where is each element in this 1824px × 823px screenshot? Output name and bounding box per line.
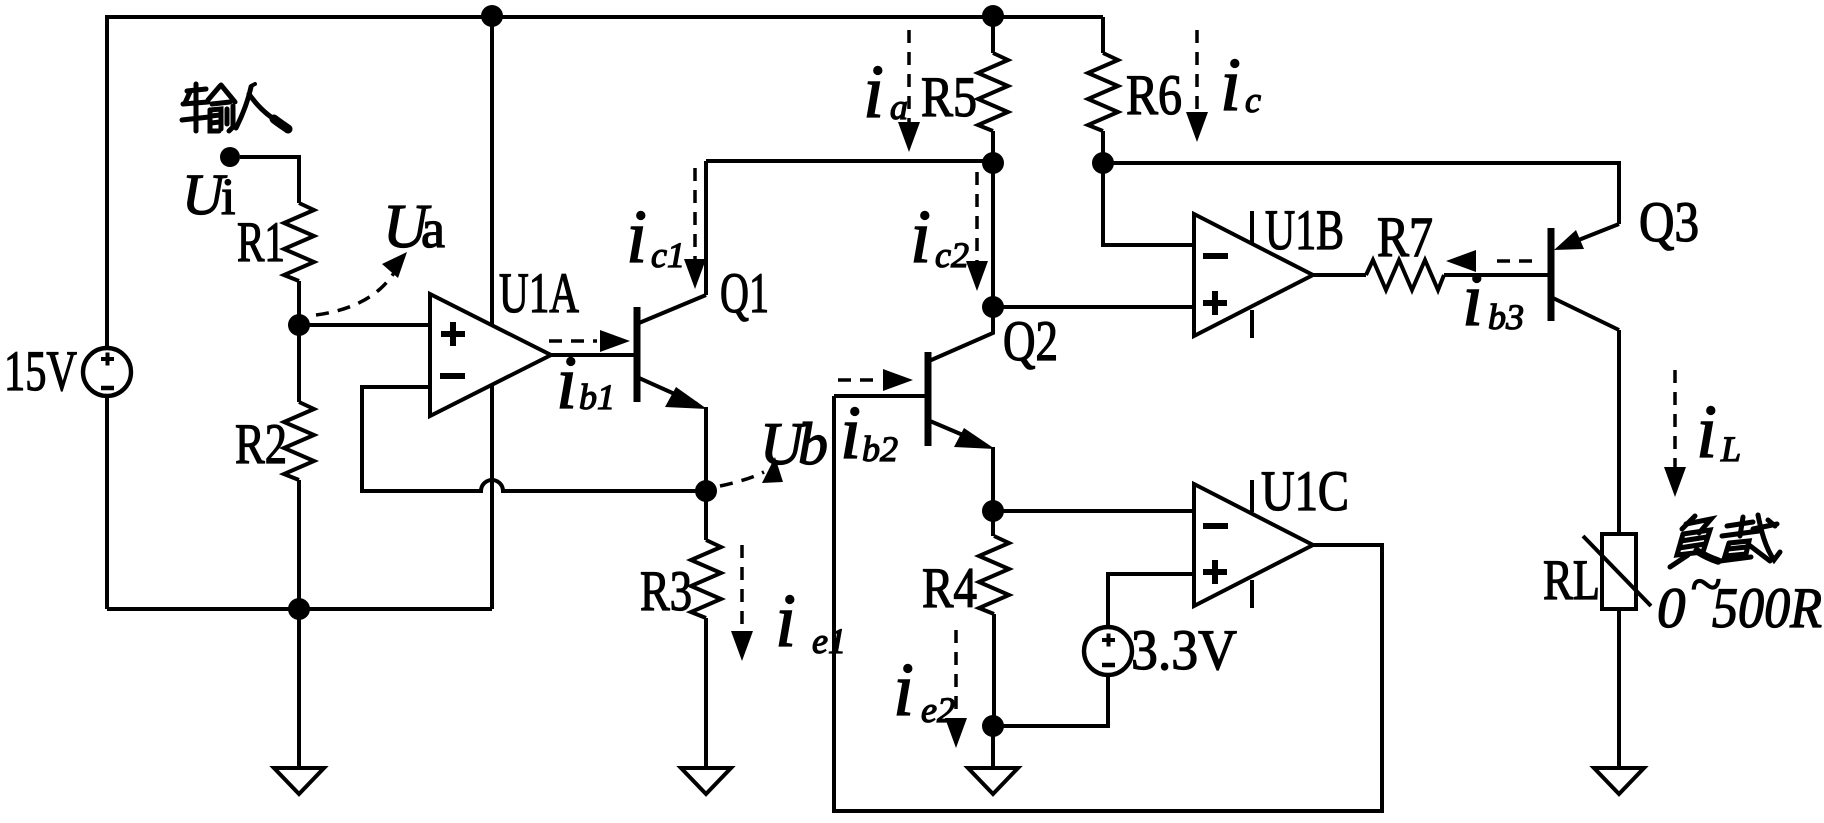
node R6 bottom junction (1092, 152, 1114, 174)
label R3 (640, 560, 692, 623)
wire input to R1 (240, 157, 299, 203)
node Q2 emitter / R4 junction (982, 500, 1004, 522)
node input terminal Ui (220, 147, 240, 167)
resistor R6 (1088, 17, 1118, 163)
ground under RL (1594, 609, 1644, 794)
label R6 (1126, 64, 1182, 127)
label U1C (1261, 460, 1349, 523)
node R5 bottom junction (982, 152, 1004, 174)
current arrow i_a (898, 30, 920, 152)
wire R7 to Q3 base (1444, 273, 1550, 277)
current arrow i_L (1664, 370, 1686, 497)
wire Q2 base from U1C feedback (834, 394, 928, 398)
label 输入 (input) (182, 84, 288, 131)
current arrow i_c (1186, 30, 1208, 142)
label i_e2 (893, 648, 955, 732)
wire U1C output feedback loop to Q2 base (834, 396, 1382, 811)
label Ua with curved arrow (316, 193, 445, 315)
label U1B (1265, 199, 1344, 262)
wire top rail (107, 15, 1103, 19)
label i_L (1696, 390, 1741, 474)
svg-text:i: i (1696, 390, 1717, 474)
node top R5 junction (982, 5, 1004, 27)
wire 3.3V to U1C + input (1108, 574, 1194, 627)
op-amp U1B (1194, 211, 1313, 338)
svg-text:a: a (421, 199, 445, 259)
current arrow i_b3 (1446, 250, 1532, 272)
svg-text:R1: R1 (237, 211, 285, 274)
op-amp U1C (1194, 480, 1313, 608)
load resistor RL (adjustable) (1583, 534, 1651, 609)
label i_b1 (556, 341, 615, 425)
svg-text:i: i (221, 169, 235, 226)
svg-text:i: i (840, 391, 861, 475)
label Q2 (1003, 310, 1058, 373)
wire bottom-left rail (107, 607, 492, 611)
ground under R3 (681, 618, 731, 794)
label i_c2 (910, 195, 969, 279)
ground under R4 (968, 726, 1018, 794)
node Q2 collector junction (982, 296, 1004, 318)
svg-text:500R: 500R (1712, 577, 1822, 640)
label 3.3V (1131, 619, 1237, 682)
svg-text:b2: b2 (862, 429, 898, 469)
label Q1 (720, 262, 769, 325)
transistor Q1 (637, 295, 707, 409)
transistor Q2 (928, 307, 995, 511)
svg-text:R7: R7 (1377, 206, 1433, 269)
label 15V (4, 340, 77, 403)
wire Q2 collector chain (991, 163, 995, 307)
svg-text:Q3: Q3 (1639, 191, 1699, 254)
label i_c (1220, 43, 1261, 127)
svg-text:U1A: U1A (499, 262, 579, 325)
current arrow i_c2 (966, 172, 988, 291)
wire R1 to node A (297, 281, 301, 325)
svg-text:e1: e1 (812, 621, 846, 661)
svg-text:0: 0 (1657, 577, 1686, 640)
wire collector rail to R5 node (706, 159, 993, 163)
wire R6 node to Q3 emitter (1103, 163, 1619, 224)
wire U1A feedback (minus input to node Ub, hops over vertical) (362, 387, 706, 491)
svg-text:i: i (910, 195, 931, 279)
current arrow i_c1 (684, 168, 706, 289)
wire Q3 collector to RL (1617, 330, 1621, 534)
wire R2 top (297, 325, 301, 402)
label RL (1543, 549, 1600, 612)
svg-text:Q1: Q1 (720, 262, 769, 325)
node top-left junction (481, 5, 503, 27)
ground under R2 (274, 609, 324, 794)
svg-text:b1: b1 (579, 377, 615, 417)
label R7 (1377, 206, 1433, 269)
wire U1C - input from R4 top (993, 509, 1194, 513)
voltage source 3.3V (1084, 627, 1132, 675)
svg-text:c1: c1 (651, 235, 685, 275)
wire Q1 collector up (704, 161, 708, 295)
voltage source 15V (83, 348, 131, 396)
wire center vertical (top rail to bottom rail) (490, 16, 494, 609)
svg-text:b3: b3 (1488, 297, 1524, 337)
svg-text:c2: c2 (935, 235, 969, 275)
label i_b2 (840, 391, 898, 475)
node R2 bottom junction (288, 598, 310, 620)
svg-text:U1C: U1C (1261, 460, 1349, 523)
label i_b3 (1462, 258, 1524, 342)
svg-text:i: i (893, 648, 914, 732)
label i_e1 (775, 579, 846, 663)
label R5 (921, 66, 977, 129)
wire R2 bottom (297, 480, 301, 609)
svg-text:R4: R4 (922, 557, 977, 620)
svg-text:R6: R6 (1126, 64, 1182, 127)
label U1A (499, 262, 579, 325)
svg-text:e2: e2 (921, 690, 955, 730)
wire left rail lower (105, 396, 109, 609)
svg-text:i: i (775, 579, 796, 663)
svg-text:i: i (1462, 258, 1483, 342)
svg-text:R5: R5 (921, 66, 977, 129)
label 0~500R (1657, 553, 1822, 640)
svg-text:15V: 15V (4, 340, 77, 403)
wire U1B + input from Q2 collector (993, 305, 1194, 309)
label i_c1 (626, 195, 685, 279)
label Q3 (1639, 191, 1699, 254)
current arrow i_e1 (731, 545, 753, 661)
svg-text:RL: RL (1543, 549, 1600, 612)
resistor R3 (691, 491, 721, 618)
resistor R7 (1366, 260, 1444, 290)
svg-text:i: i (626, 195, 647, 279)
node A (R1/R2/U1A+) (288, 314, 310, 336)
label Ub with curved arrow (720, 411, 828, 486)
svg-text:a: a (890, 87, 908, 127)
label R1 (237, 211, 285, 274)
wire U1B output to R7 (1313, 273, 1366, 277)
wire R4 bottom to 3.3V source (993, 675, 1108, 726)
wire Q1 emitter down (704, 407, 708, 491)
resistor R2 (284, 402, 314, 480)
op-amp U1A (430, 294, 551, 416)
svg-text:3.3V: 3.3V (1131, 619, 1237, 682)
resistor R5 (978, 16, 1008, 163)
resistor R4 (979, 511, 1009, 726)
svg-text:R2: R2 (235, 413, 287, 476)
svg-text:i: i (556, 341, 577, 425)
svg-text:i: i (863, 50, 884, 134)
svg-text:b: b (798, 411, 828, 477)
current arrow i_b2 (838, 369, 913, 391)
current arrow i_b1 (549, 330, 630, 352)
label Ui (182, 162, 235, 227)
wire U1A output to Q1 base (551, 353, 635, 357)
svg-text:i: i (1220, 43, 1241, 127)
svg-text:R3: R3 (640, 560, 692, 623)
svg-text:Q2: Q2 (1003, 310, 1058, 373)
svg-text:c: c (1245, 80, 1261, 120)
transistor Q3 (1551, 224, 1619, 330)
svg-text:L: L (1720, 429, 1741, 469)
svg-text:U1B: U1B (1265, 199, 1344, 262)
current arrow i_e2 (945, 630, 967, 748)
node Ub (Q1 emitter / R3 / feedback) (695, 480, 717, 502)
label i_a (863, 50, 908, 134)
wire node A to U1A + input (299, 323, 432, 327)
resistor R1 (284, 203, 314, 281)
label 负载 (load) (1670, 515, 1780, 567)
wire left rail upper (105, 15, 109, 348)
label R4 (922, 557, 977, 620)
node R4 bottom junction (982, 715, 1004, 737)
label R2 (235, 413, 287, 476)
wire U1B - input from R6 (1103, 163, 1194, 245)
